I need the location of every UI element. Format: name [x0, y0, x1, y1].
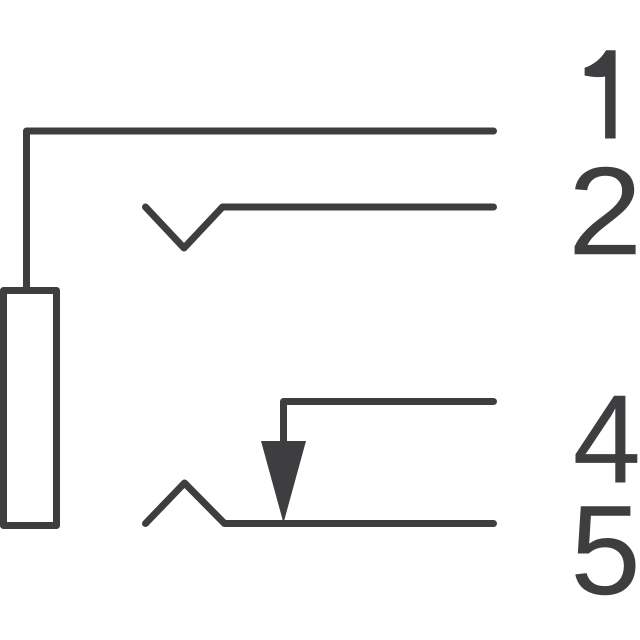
- wire pin 5 (ring contact): [146, 483, 494, 524]
- wire pin 1 (tip contact): [27, 131, 494, 288]
- pin label 5: [575, 506, 635, 595]
- pin label 2: [575, 167, 636, 255]
- arrowhead of pin 4 contact: [261, 441, 306, 523]
- pin label 4: [576, 396, 638, 483]
- jack body J1 (sleeve barrel): [4, 291, 57, 526]
- wire pin 2 (tip switch): [146, 207, 494, 248]
- pin label 1: [585, 50, 616, 138]
- wire pin 4 (ring switch): [284, 402, 494, 447]
